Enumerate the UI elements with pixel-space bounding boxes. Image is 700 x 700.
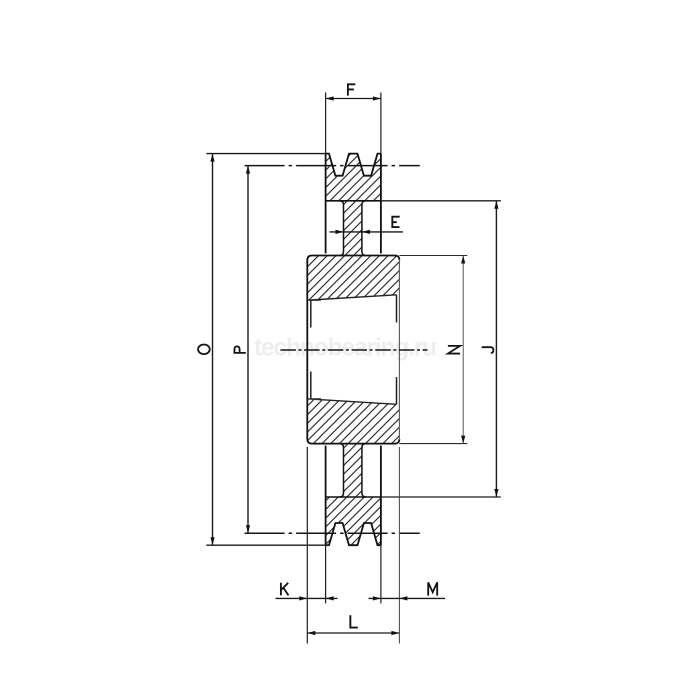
label J xyxy=(482,347,494,353)
hub right face xyxy=(398,259,400,440)
bore bottom line xyxy=(307,399,396,404)
web bottom left edge with fillets xyxy=(340,444,344,497)
centerline axis xyxy=(280,349,427,351)
groove profile top rim xyxy=(326,154,381,176)
rim left face bottom xyxy=(325,446,327,546)
dimension O line xyxy=(212,154,214,546)
pitch line top xyxy=(245,165,420,167)
hatch hub top section xyxy=(307,256,399,301)
label F xyxy=(347,83,355,95)
label M xyxy=(428,582,437,595)
dimension E line xyxy=(330,231,404,233)
dimension F line xyxy=(326,98,381,100)
hub bottom face with rounded corners xyxy=(307,439,399,444)
rim right face xyxy=(380,154,382,254)
dimension J extension lines xyxy=(381,200,501,202)
label L xyxy=(349,615,357,628)
rim right face bottom xyxy=(380,446,382,546)
pitch line bottom xyxy=(245,532,420,534)
dimension M arrows xyxy=(373,596,381,600)
dimension P arrows xyxy=(246,166,250,174)
dimension N extension lines xyxy=(399,255,467,257)
dimension L line xyxy=(307,632,399,634)
dimension F extension lines xyxy=(325,93,327,154)
dimension E arrows xyxy=(336,230,344,234)
hatch hub bottom section xyxy=(307,399,399,444)
label P xyxy=(234,346,246,353)
dimension K line xyxy=(276,597,338,599)
dimension J line xyxy=(495,201,497,497)
bore top-right edge xyxy=(396,295,398,323)
dimension N line xyxy=(462,256,464,444)
hub left face xyxy=(306,259,308,440)
bore top-left edge xyxy=(310,300,312,328)
dimension L extension lines hub faces xyxy=(306,447,308,644)
hatch web top section xyxy=(344,201,362,256)
dimension K arrows xyxy=(299,596,307,600)
svg-text:technobearing.ru: technobearing.ru xyxy=(254,334,436,362)
bore top line xyxy=(307,295,396,300)
hatch rim bottom section xyxy=(326,497,381,545)
rim inner diameter bottom xyxy=(326,496,381,498)
bore bottom-right edge xyxy=(396,377,398,404)
label O xyxy=(198,345,210,355)
dimension J arrows xyxy=(494,201,498,209)
groove profile bottom rim xyxy=(326,523,381,545)
dimension O extension lines xyxy=(206,153,329,155)
label K xyxy=(281,583,289,596)
dimension O arrows xyxy=(210,154,214,162)
rim left face xyxy=(325,154,327,254)
dimension P line xyxy=(247,166,249,534)
label E xyxy=(391,216,399,228)
dimension K/M extension lines bottom rim faces xyxy=(325,545,327,603)
hatch web bottom section xyxy=(344,444,362,497)
hub top face with rounded corners xyxy=(307,256,399,261)
web bottom right edge with fillets xyxy=(362,444,366,497)
dimension M line xyxy=(369,597,446,599)
bore bottom-left edge xyxy=(310,372,312,400)
web top right edge with fillets xyxy=(362,201,366,256)
dimension L arrows xyxy=(307,631,315,635)
hatch rim top section xyxy=(326,154,381,201)
dimension F arrows xyxy=(326,96,334,100)
rim inner diameter top xyxy=(326,200,381,202)
label N xyxy=(448,346,460,354)
web top left edge with fillets xyxy=(340,201,344,256)
dimension N arrows xyxy=(461,256,465,264)
